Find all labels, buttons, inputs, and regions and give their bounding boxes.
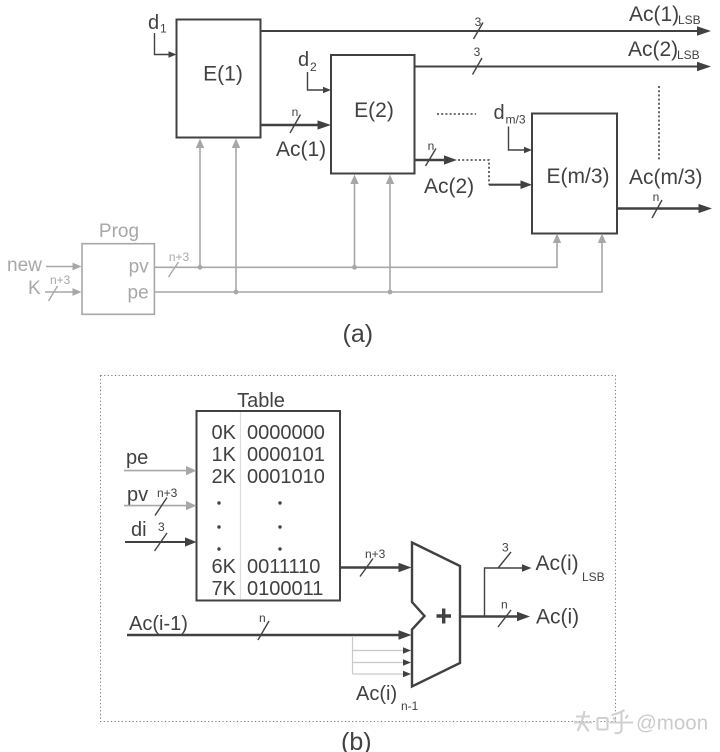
label K with n+3 [28,273,71,299]
wire Ac(1) from E(1) to E(2) [261,120,332,129]
table row 6K [212,556,321,578]
block E(1) [177,20,261,138]
svg-text:pe: pe [126,447,148,469]
svg-text:d: d [494,102,505,124]
wire adder output Ac(i) [460,598,530,628]
svg-text:@moon: @moon [636,712,708,735]
wire pv into table with slash [124,498,197,516]
wire pe tap to E(1) [232,139,240,295]
svg-text:pe: pe [128,283,149,304]
label pv n+3 (b) [127,484,178,506]
svg-text:LSB: LSB [678,13,701,27]
wire pv tap to E(2) [350,175,358,270]
wire Ac(1)LSB from E(1) top to right edge [261,26,712,36]
svg-text:Ac(1): Ac(1) [629,3,679,26]
svg-text:(b): (b) [341,728,372,752]
label d2 [298,49,317,74]
svg-text:d: d [298,49,309,71]
svg-text:2: 2 [310,60,317,74]
svg-text:pv: pv [127,484,148,506]
bus-width slash n on Ac(2) [426,139,437,166]
svg-text:n: n [259,611,266,625]
svg-text:pv: pv [129,257,150,278]
table row 1K [212,444,325,466]
svg-text:n+3: n+3 [169,250,190,264]
svg-text:Ac(2): Ac(2) [628,38,678,61]
label Ac(1)LSB [629,3,701,27]
svg-text:7K: 7K [212,578,237,600]
svg-text:6K: 6K [212,556,237,578]
svg-text:LSB: LSB [582,570,605,584]
svg-text:n-1: n-1 [401,699,419,713]
wire d1 into E(1) [155,33,177,58]
svg-text:K: K [28,278,41,299]
block E(m/3) [532,114,617,234]
dotted enclosure (b) [101,376,616,722]
dotted vertical continuation right [658,86,660,160]
table ellipsis dots [217,501,281,550]
svg-text:new: new [7,255,42,276]
wire pv tap to E(1) [196,139,204,270]
wire Ac(2) from E(2) right [415,155,458,164]
svg-text:E(2): E(2) [354,99,394,122]
svg-text:E(1): E(1) [203,63,243,86]
wire pv bus from Prog [154,234,561,268]
svg-text:0001010: 0001010 [247,466,325,488]
svg-text:0000000: 0000000 [247,422,325,444]
label Ac(2)LSB [628,38,700,62]
svg-text:n: n [292,105,299,119]
label Ac(i) n-1 [356,683,419,713]
wire Ac(m/3) output [617,204,712,213]
svg-text:0K: 0K [212,422,237,444]
bus-width slash n+3 on pv [169,250,190,277]
svg-text:d: d [148,12,159,34]
wire pe into table [124,466,197,475]
bus-width slash n on Ac(1) [290,105,301,133]
svg-text:1K: 1K [212,444,237,466]
svg-text:n: n [653,190,660,204]
wire Ac(i-1) into adder [127,611,412,640]
svg-text:n+3: n+3 [50,273,71,287]
svg-text:Ac(i): Ac(i) [536,606,579,629]
svg-text:3: 3 [158,520,165,534]
wire d m/3 into E(m/3) [509,127,533,154]
svg-text:LSB: LSB [677,48,700,62]
table row 2K [212,466,325,488]
wire pe bus from Prog [154,234,606,293]
label d1 [148,12,167,36]
svg-text:Ac(2): Ac(2) [424,175,474,198]
svg-text:2K: 2K [212,466,237,488]
wire d2 into E(2) [308,72,332,93]
svg-text:m/3: m/3 [506,113,526,127]
svg-text:di: di [131,519,147,541]
bus-width slash 3 on Ac(1)LSB [474,15,484,39]
svg-text:(a): (a) [343,320,374,348]
svg-text:0000101: 0000101 [247,444,325,466]
svg-text:Ac(m/3): Ac(m/3) [629,166,703,189]
svg-text:1: 1 [160,22,167,36]
svg-text:Prog: Prog [99,221,139,242]
block Prog (programming unit, gray) [82,221,154,314]
wire branch Ac(i) LSB [485,541,532,617]
label di 3 (b) [131,519,165,541]
svg-text:n: n [428,139,435,153]
bus-width slash n on Ac(m/3) [652,190,662,218]
wire new into Prog [46,263,82,271]
table box [197,411,341,601]
dotted continuation between E(2) and d m/3 [437,113,476,115]
wire pe tap to E(2) [386,175,394,295]
block E(2) [331,55,415,174]
dotted wire Ac(2) to E(m/3) [458,160,532,189]
svg-text:0011110: 0011110 [247,556,320,578]
svg-text:E(m/3): E(m/3) [547,165,610,188]
svg-text:0100011: 0100011 [247,578,323,600]
svg-text:Ac(i-1): Ac(i-1) [129,613,188,635]
table row 0K [212,422,325,444]
feedback wires Ac(i) n-1 [353,637,412,677]
table row 7K [212,578,324,600]
label Ac(i) LSB [536,552,605,584]
svg-text:n+3: n+3 [365,547,386,561]
svg-text:n: n [501,598,508,612]
label d m/3 [494,102,526,127]
watermark zhihu @moon [574,710,708,735]
bus-width slash 3 on Ac(2)LSB [473,45,483,75]
svg-text:3: 3 [474,45,481,59]
svg-text:Table: Table [237,390,285,412]
adder U1 (+) [412,543,460,687]
svg-text:Ac(1): Ac(1) [276,138,326,161]
svg-text:Ac(i): Ac(i) [536,552,579,575]
svg-text:3: 3 [475,15,482,29]
wire Ac(2)LSB from E(2) top to right edge [415,62,712,72]
svg-text:Ac(i): Ac(i) [356,683,397,705]
wire table output n+3 to adder [340,547,412,577]
wire K into Prog with slash [45,286,82,301]
svg-text:3: 3 [502,541,509,555]
wire di into table with slash [125,533,197,551]
